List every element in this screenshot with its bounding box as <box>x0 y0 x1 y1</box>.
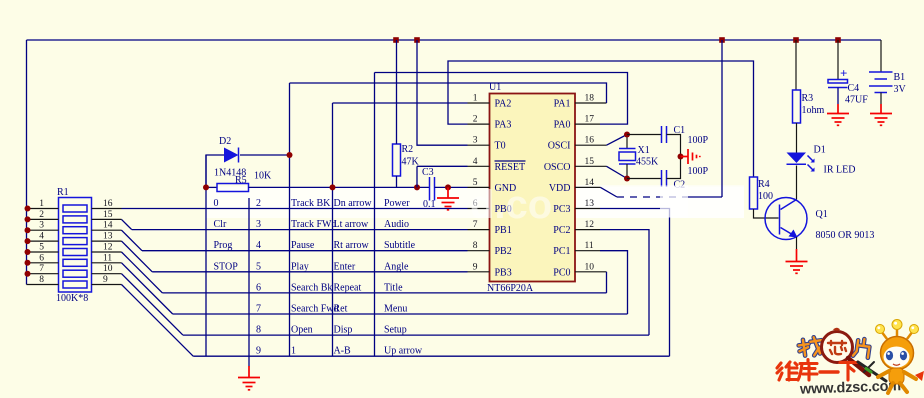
svg-text:Disp: Disp <box>334 325 353 336</box>
svg-text:4: 4 <box>256 240 261 251</box>
resistor R3 <box>793 90 825 123</box>
svg-text:STOP: STOP <box>214 261 239 272</box>
svg-text:D2: D2 <box>219 136 231 147</box>
wire RESET pin4 drop <box>416 166 418 187</box>
wire diagonal R1 pin9 to row8 <box>122 285 194 357</box>
svg-text:3V: 3V <box>894 84 907 95</box>
svg-text:Prog: Prog <box>214 240 233 251</box>
wire matrix column3 PA1 <box>289 83 291 356</box>
svg-text:9: 9 <box>473 262 478 272</box>
ground rotated at oscillator <box>681 149 700 164</box>
svg-text:Angle: Angle <box>384 261 409 272</box>
node D2 cathode junction <box>287 152 293 158</box>
svg-text:0.1: 0.1 <box>423 199 436 210</box>
wire OSCI pin16 to crystal <box>607 135 628 146</box>
svg-text:R4: R4 <box>758 179 770 190</box>
svg-text:Track FWd: Track FWd <box>291 219 336 230</box>
svg-text:+: + <box>840 66 847 81</box>
logo char xia <box>840 363 857 381</box>
ground under B1 <box>870 104 892 125</box>
wire matrix row8 PC3 <box>193 355 669 357</box>
svg-text:Pause: Pause <box>291 240 315 251</box>
svg-text:OSCI: OSCI <box>548 141 571 152</box>
svg-text:Enter: Enter <box>334 261 356 272</box>
wire left vertical to R1 <box>26 40 28 285</box>
wire diagonal R1 pin13 to row4 <box>122 241 153 272</box>
svg-text:17: 17 <box>585 115 595 125</box>
logo char zhao (find) <box>798 336 823 357</box>
wire VDD pin14 to rail <box>601 187 618 197</box>
node R5 left junction <box>203 184 209 190</box>
wire matrix row4 PB3 <box>152 271 467 273</box>
svg-text:14: 14 <box>103 221 113 231</box>
wire R2 bottom to reset net <box>396 176 398 187</box>
svg-text:8: 8 <box>39 275 44 285</box>
node column4 junction <box>330 184 336 190</box>
svg-text:12: 12 <box>103 243 113 253</box>
IC left pin stubs <box>468 103 490 272</box>
svg-text:C3: C3 <box>422 167 434 178</box>
svg-text:12: 12 <box>585 220 595 230</box>
wire VDD top rail <box>27 39 882 41</box>
wire Q1 emitter down <box>796 237 798 249</box>
svg-text:47UF: 47UF <box>845 95 868 106</box>
svg-text:9: 9 <box>103 275 108 285</box>
svg-text:0: 0 <box>214 198 219 209</box>
svg-text:100K*8: 100K*8 <box>56 293 88 304</box>
wire matrix row7 PC2 <box>183 334 649 336</box>
logo magnifier <box>822 332 853 363</box>
node R1 left junction dots <box>25 206 31 277</box>
wire matrix column4 PA2 <box>332 103 334 356</box>
wire matrix column2 grounded <box>248 198 250 367</box>
svg-text:Clr: Clr <box>214 219 227 230</box>
svg-text:100: 100 <box>758 191 773 202</box>
svg-text:10: 10 <box>585 262 595 272</box>
svg-text:11: 11 <box>103 253 112 263</box>
svg-text:10K: 10K <box>254 171 272 182</box>
svg-text:8: 8 <box>256 325 261 336</box>
svg-text:PC0: PC0 <box>553 267 570 278</box>
svg-text:5: 5 <box>39 243 44 253</box>
svg-text:1ohm: 1ohm <box>802 105 825 116</box>
logo magnifier handle <box>848 358 869 375</box>
wire PC3 pin13 to row8 <box>600 209 670 357</box>
svg-text:16: 16 <box>585 136 595 146</box>
svg-text:8: 8 <box>473 241 478 251</box>
svg-text:13: 13 <box>103 232 113 242</box>
svg-text:C4: C4 <box>848 83 860 94</box>
logo char yi <box>820 370 838 373</box>
svg-text:14: 14 <box>585 178 595 188</box>
svg-text:Search Bk: Search Bk <box>291 282 332 293</box>
svg-text:B1: B1 <box>894 72 906 83</box>
svg-text:PA1: PA1 <box>554 99 571 110</box>
node crystal top junction <box>624 132 630 138</box>
wire R5 row left <box>206 186 217 188</box>
svg-text:R2: R2 <box>402 144 414 155</box>
svg-text:11: 11 <box>585 241 594 251</box>
svg-text:PA0: PA0 <box>554 120 571 131</box>
node rail junctions <box>393 37 399 43</box>
wire PA2 pin1 horizontal <box>333 102 468 104</box>
wire matrix column5 PA0 <box>374 73 376 357</box>
svg-text:Subtitle: Subtitle <box>384 240 416 251</box>
wire D2 cathode to column3 <box>240 154 290 156</box>
svg-text:1: 1 <box>291 346 296 357</box>
svg-text:18: 18 <box>585 94 595 104</box>
svg-text:RESET: RESET <box>495 162 526 173</box>
wire PA3 pin2 to R4 <box>448 61 754 177</box>
svg-text:PA3: PA3 <box>495 120 512 131</box>
svg-text:d.co: d.co <box>470 183 552 227</box>
wire diagonal fanout R1 pin15 to row2 <box>122 219 132 229</box>
svg-text:1: 1 <box>473 94 478 104</box>
svg-text:2: 2 <box>473 115 478 125</box>
wire T0 vertical from rail <box>417 40 468 145</box>
logo char ku <box>798 360 817 381</box>
svg-text:3: 3 <box>39 221 44 231</box>
ground at GND pin <box>437 187 459 209</box>
svg-text:3: 3 <box>256 219 261 230</box>
svg-text:Q1: Q1 <box>816 209 828 220</box>
resistor R5 <box>217 171 272 192</box>
svg-text:X1: X1 <box>638 145 650 156</box>
svg-text:PB3: PB3 <box>495 267 512 278</box>
svg-text:T0: T0 <box>495 141 506 152</box>
dzsc watermark logo bottom-right <box>777 320 924 398</box>
svg-text:Dn arrow: Dn arrow <box>334 198 373 209</box>
svg-text:16: 16 <box>103 199 113 209</box>
svg-text:4: 4 <box>39 232 44 242</box>
wire matrix row2 PB1 <box>132 229 468 231</box>
diode D2 1N4148 <box>214 136 246 179</box>
wire matrix row3 PB2 <box>142 250 468 252</box>
IC U1 NT66P20A body <box>487 82 575 294</box>
wire rail to R3 <box>795 40 797 90</box>
svg-text:Play: Play <box>291 261 309 272</box>
svg-text:8050 OR 9013: 8050 OR 9013 <box>816 230 875 241</box>
wire D1 to Q1 collector <box>796 166 798 200</box>
transistor Q1 <box>765 198 874 242</box>
svg-text:2: 2 <box>256 198 261 209</box>
wire PA1 pin18 over IC to column3 <box>290 83 607 103</box>
svg-text:47K: 47K <box>402 157 420 168</box>
svg-text:Search Fwd: Search Fwd <box>291 304 339 315</box>
svg-text:Up arrow: Up arrow <box>384 346 423 357</box>
wire diagonal R1 pin11 to row6 <box>122 263 173 314</box>
svg-text:Open: Open <box>291 325 313 336</box>
ground under C4 <box>827 104 849 125</box>
svg-text:Ret: Ret <box>334 304 348 315</box>
svg-text:4: 4 <box>473 157 478 167</box>
svg-text:Rt arrow: Rt arrow <box>334 240 370 251</box>
wire R4 to Q1 base <box>754 209 779 218</box>
crystal X1 455K <box>619 135 659 179</box>
capacitor C1 100P <box>627 125 709 157</box>
svg-text:Audio: Audio <box>384 219 409 230</box>
svg-text:C1: C1 <box>674 125 686 136</box>
ground under column2 <box>238 366 260 390</box>
logo char wei <box>777 362 798 380</box>
wire PC2 pin12 to row7 <box>600 230 649 336</box>
wire R2 top to rail <box>396 40 398 144</box>
capacitor C2 100P <box>627 157 709 191</box>
wire C3 right to GND pin5 <box>435 186 468 188</box>
node GND junction <box>445 184 451 190</box>
node RESET drop junction <box>414 184 420 190</box>
svg-text:Menu: Menu <box>384 304 407 315</box>
wire R3 to D1 <box>796 123 798 153</box>
svg-text:15: 15 <box>585 157 595 167</box>
matrix key labels <box>214 198 423 357</box>
svg-text:5: 5 <box>256 261 261 272</box>
svg-text:100P: 100P <box>688 135 709 146</box>
svg-text:PC3: PC3 <box>553 204 570 215</box>
logo char pian (chip) <box>853 338 870 358</box>
svg-text:PB2: PB2 <box>495 246 512 257</box>
svg-text:Power: Power <box>384 198 410 209</box>
battery B1 3V <box>869 40 907 104</box>
svg-text:PC1: PC1 <box>553 246 570 257</box>
svg-text:Title: Title <box>384 282 403 293</box>
IC right pin stubs <box>575 103 607 272</box>
svg-text:PC2: PC2 <box>553 225 570 236</box>
svg-text:NT66P20A: NT66P20A <box>487 283 534 294</box>
wire PA0 pin17 over IC to column5 <box>375 73 628 125</box>
wire diagonal R1 pin12 to row5 <box>122 252 163 293</box>
wire R5 to reset node <box>249 186 430 188</box>
svg-text:455K: 455K <box>636 157 659 168</box>
IC pin numbers <box>473 94 595 273</box>
svg-text:7: 7 <box>39 264 44 274</box>
svg-text:15: 15 <box>103 210 113 220</box>
svg-text:10: 10 <box>103 264 113 274</box>
R1 pin numbers right <box>103 199 113 285</box>
capacitor C4 electrolytic <box>828 40 868 106</box>
resistor R2 pull-up <box>393 144 420 176</box>
R1 pin numbers left <box>39 199 44 285</box>
svg-text:IR LED: IR LED <box>824 165 856 176</box>
svg-text:PA2: PA2 <box>495 99 512 110</box>
svg-text:R3: R3 <box>802 93 814 104</box>
watermark band <box>206 187 744 219</box>
wire diagonal R1 pin14 to row3 <box>122 230 143 251</box>
wire PC1 pin11 to row6 <box>600 251 628 314</box>
wire PC0 pin10 to row5 <box>606 272 608 293</box>
IC port labels <box>495 99 571 279</box>
ground at Q1 emitter <box>786 249 808 273</box>
wire matrix row6 PC1 <box>173 313 628 315</box>
wire matrix column1 <box>205 155 207 356</box>
svg-text:2: 2 <box>39 210 44 220</box>
svg-text:13: 13 <box>585 199 595 209</box>
wire R1 right pin stubs <box>92 209 122 285</box>
svg-text:9: 9 <box>256 346 261 357</box>
capacitor C3 <box>422 167 436 210</box>
svg-text:6: 6 <box>256 282 261 293</box>
wire D2 anode branch <box>206 155 224 187</box>
RESET overline <box>495 160 526 162</box>
resistor network R1 <box>56 187 92 304</box>
node oscillator ground junction <box>678 154 684 160</box>
wire matrix row5 PC0 <box>162 292 606 294</box>
svg-text:Track BK: Track BK <box>291 198 331 209</box>
svg-text:6: 6 <box>39 253 44 263</box>
svg-text:Lt arrow: Lt arrow <box>334 219 369 230</box>
svg-text:Repeat: Repeat <box>334 282 362 293</box>
svg-text:A-B: A-B <box>334 346 352 357</box>
logo mascot <box>858 320 924 394</box>
svg-text:OSCO: OSCO <box>544 162 571 173</box>
svg-text:1: 1 <box>39 199 44 209</box>
svg-text:D1: D1 <box>814 145 826 156</box>
node crystal bottom junction <box>624 176 630 182</box>
wire R1 left pin stubs <box>27 209 59 285</box>
wire matrix row1 PB0 <box>122 208 468 210</box>
wire diagonal R1 pin10 to row7 <box>122 274 183 335</box>
svg-text:3: 3 <box>473 136 478 146</box>
wire OSCO pin15 to crystal <box>607 166 628 178</box>
svg-text:R5: R5 <box>235 175 247 186</box>
svg-text:100P: 100P <box>688 166 709 177</box>
resistor R4 base <box>750 177 774 209</box>
logo char xin inside magnifier <box>828 341 846 354</box>
svg-text:Setup: Setup <box>384 325 407 336</box>
svg-text:7: 7 <box>256 304 261 315</box>
svg-text:R1: R1 <box>57 187 69 198</box>
LED D1 IR <box>787 145 856 176</box>
